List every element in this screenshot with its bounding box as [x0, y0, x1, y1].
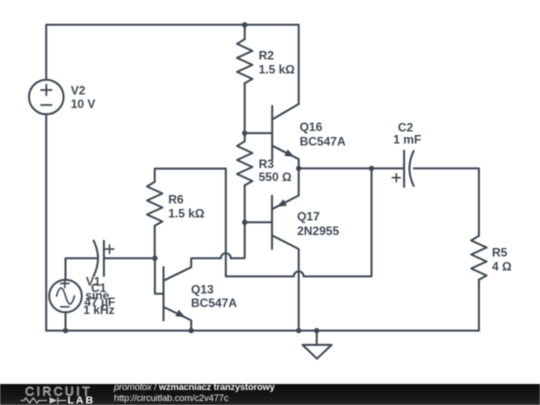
svg-text:1 mF: 1 mF — [393, 133, 421, 147]
svg-text:2N2955: 2N2955 — [297, 224, 339, 238]
svg-text:550 Ω: 550 Ω — [259, 170, 292, 184]
svg-text:V2: V2 — [71, 83, 86, 97]
svg-text:Q17: Q17 — [297, 210, 320, 224]
svg-text:Q16: Q16 — [300, 120, 323, 134]
svg-text:1.5 kΩ: 1.5 kΩ — [168, 206, 205, 220]
svg-text:Q13: Q13 — [191, 283, 214, 297]
svg-text:10 V: 10 V — [71, 97, 96, 111]
svg-text:R6: R6 — [168, 192, 184, 206]
svg-text:LAB: LAB — [68, 395, 96, 405]
svg-text:R3: R3 — [259, 157, 275, 171]
svg-text:R5: R5 — [492, 246, 508, 260]
svg-text:1.5 kΩ: 1.5 kΩ — [259, 63, 296, 77]
svg-text:BC547A: BC547A — [300, 134, 346, 148]
svg-text:1 kHz: 1 kHz — [83, 303, 114, 317]
svg-text:4 Ω: 4 Ω — [492, 259, 512, 273]
svg-text:BC547A: BC547A — [191, 296, 237, 310]
svg-text:R2: R2 — [259, 49, 275, 63]
